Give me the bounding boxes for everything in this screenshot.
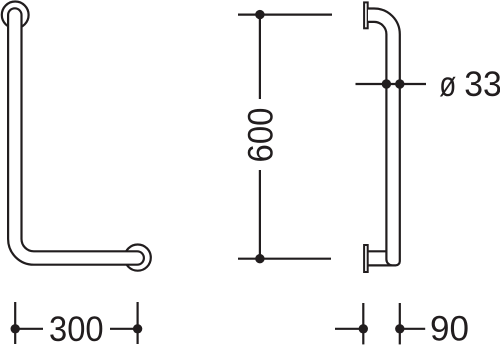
- dim 90: right dot: [395, 324, 404, 333]
- svg-text:90: 90: [430, 310, 469, 349]
- dim 300: left dot: [11, 324, 20, 333]
- dim 300: right line segment: [110, 328, 138, 330]
- side view: bottom wall flange plate: [364, 245, 368, 272]
- dim ø33: dimension line across tube: [356, 83, 427, 85]
- svg-text:ø: ø: [439, 65, 456, 104]
- dim 90: right line segment: [400, 328, 425, 330]
- L-shaped grab bar tube (front view): [8, 8, 144, 264]
- wall flange (front view, top, circle): [2, 2, 29, 29]
- side view: top wall flange plate: [364, 2, 368, 28]
- dim 90: left dot: [359, 324, 368, 333]
- dim 600: bottom endpoint dot: [255, 254, 264, 263]
- dim 90: left line segment: [335, 328, 363, 330]
- dim 600: vertical dimension line lower segment: [259, 170, 261, 259]
- svg-text:33: 33: [464, 65, 500, 104]
- side view: bottom support arm top line: [368, 250, 387, 252]
- dim 300: left line segment: [15, 328, 43, 330]
- svg-text:300: 300: [49, 310, 104, 349]
- dim 90: right tick: [399, 303, 401, 344]
- dim 300: right tick: [137, 302, 139, 344]
- side view: bottom support arm bottom line: [368, 264, 393, 266]
- dim 600: bottom extension line: [238, 258, 331, 260]
- dim 600: top endpoint dot: [255, 10, 264, 19]
- dim ø33: right dot on tube edge: [395, 79, 404, 88]
- wall flange (front view, bottom right, circle): [125, 245, 151, 271]
- dim 300: left tick: [14, 302, 16, 344]
- dim 600: vertical dimension line upper segment: [259, 15, 261, 99]
- side view: bar tube outline: [368, 9, 400, 266]
- dim 600: top extension line: [238, 14, 332, 16]
- dim 300: right dot: [133, 324, 142, 333]
- dim 90: left tick: [362, 303, 364, 344]
- dim ø33: left dot on tube edge: [382, 79, 391, 88]
- svg-text:600: 600: [241, 108, 280, 163]
